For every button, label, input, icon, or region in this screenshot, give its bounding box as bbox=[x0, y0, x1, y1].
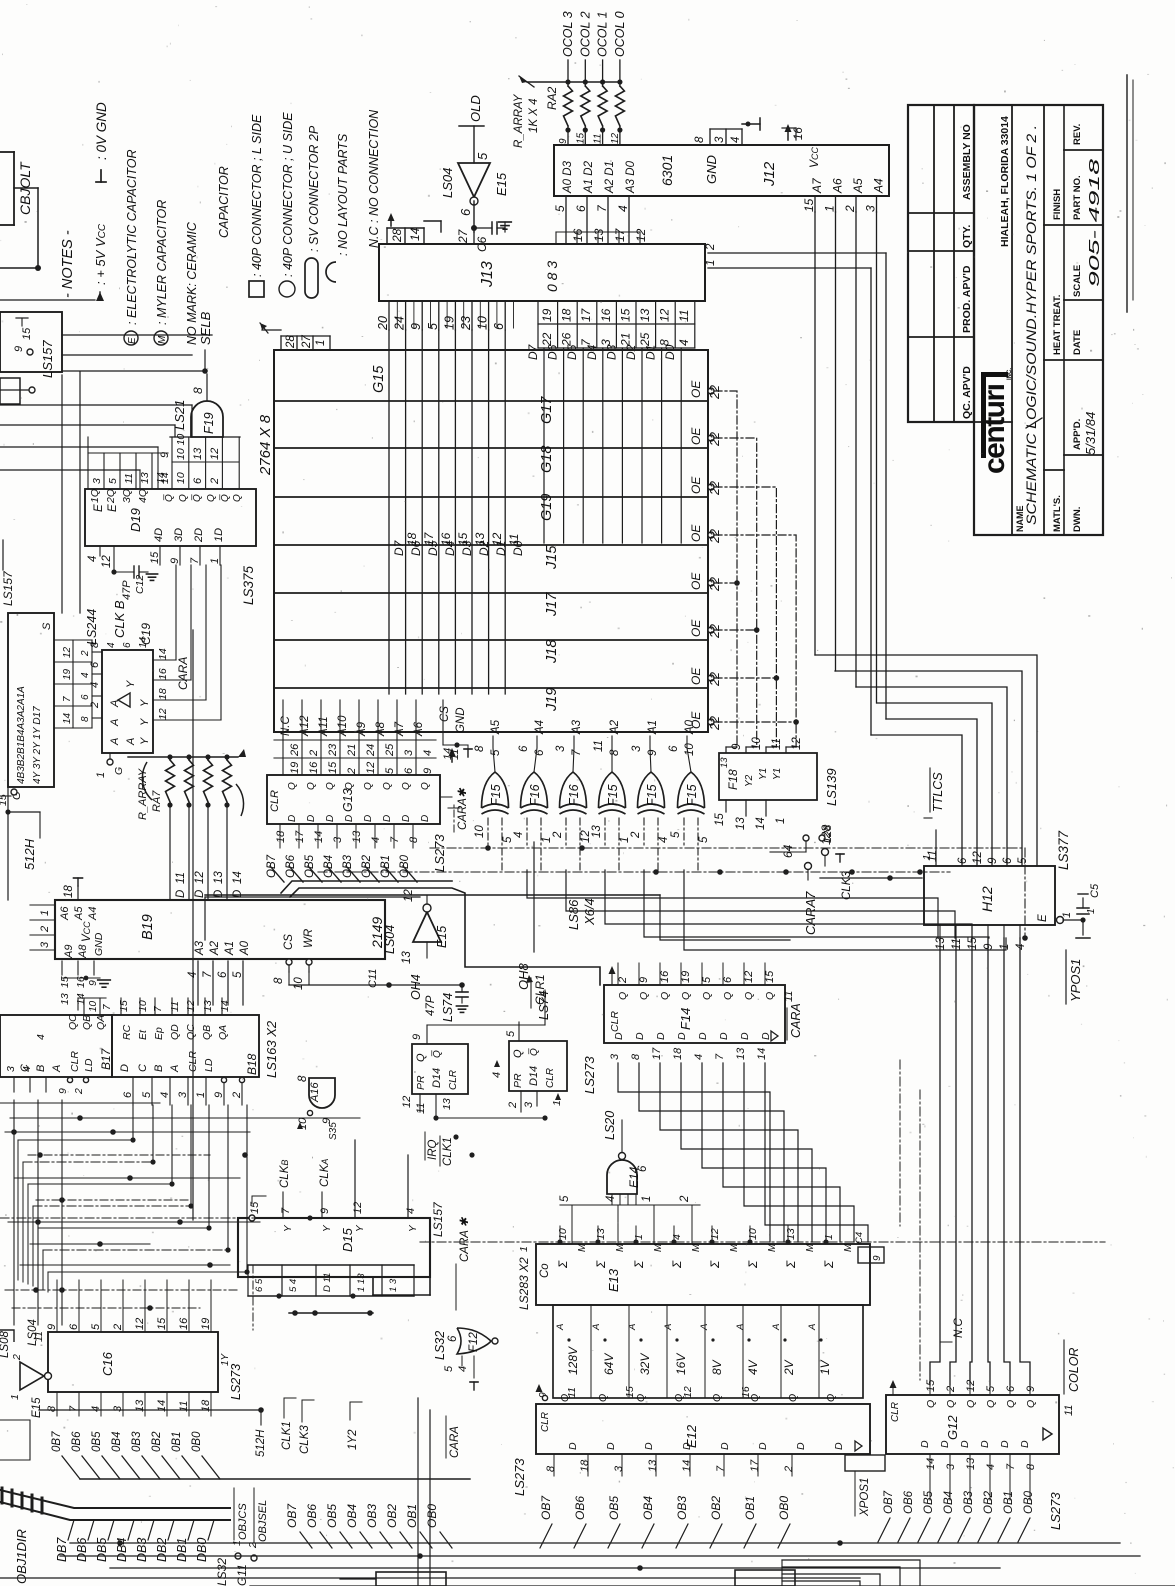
EPROM mid data pins D7-D0 bbox=[392, 531, 525, 556]
svg-text:CBJOLT: CBJOLT bbox=[17, 161, 33, 215]
svg-text:G18: G18 bbox=[539, 446, 555, 473]
svg-text:4: 4 bbox=[457, 1366, 469, 1372]
svg-text:1: 1 bbox=[999, 944, 1011, 950]
svg-text:10: 10 bbox=[557, 1228, 569, 1240]
svg-text:CLK3: CLK3 bbox=[299, 1425, 311, 1454]
svg-text:2: 2 bbox=[630, 831, 642, 839]
svg-text:4: 4 bbox=[658, 837, 670, 843]
svg-text:12: 12 bbox=[634, 228, 648, 242]
svg-text:M: M bbox=[843, 1243, 854, 1252]
svg-text:A: A bbox=[555, 1324, 566, 1331]
svg-text:13: 13 bbox=[595, 1228, 607, 1240]
wire bundle right of EPROM bbox=[705, 212, 886, 735]
svg-text:D: D bbox=[655, 1032, 667, 1040]
dash-dot rail D15 to E13 bbox=[240, 1215, 430, 1242]
svg-text:10: 10 bbox=[175, 472, 187, 484]
svg-text:16: 16 bbox=[308, 761, 320, 774]
svg-text:13: 13 bbox=[719, 757, 730, 768]
svg-text:17: 17 bbox=[579, 307, 593, 322]
net labels OCOL3-0 bbox=[561, 11, 627, 82]
svg-text:1V: 1V bbox=[818, 1359, 832, 1375]
svg-text:OB7: OB7 bbox=[266, 854, 278, 878]
svg-text:2: 2 bbox=[945, 1386, 957, 1393]
svg-text:15: 15 bbox=[764, 970, 776, 983]
svg-text:N.C: N.C bbox=[953, 1318, 965, 1339]
svg-text:M: M bbox=[157, 335, 168, 344]
E12 output labels OB7-OB0 bbox=[539, 1454, 795, 1548]
svg-text:OE: OE bbox=[689, 427, 703, 445]
svg-text:TTLCS: TTLCS bbox=[931, 772, 945, 812]
svg-text:A7: A7 bbox=[810, 177, 824, 194]
svg-text:Σ: Σ bbox=[822, 1260, 836, 1269]
svg-text:2: 2 bbox=[209, 478, 221, 485]
svg-text:A9: A9 bbox=[356, 721, 368, 737]
svg-text:Q̅: Q̅ bbox=[431, 1050, 443, 1058]
svg-text:7: 7 bbox=[62, 696, 73, 702]
svg-text:6: 6 bbox=[1005, 1385, 1017, 1392]
IC H12 LS377 bbox=[922, 850, 1073, 950]
svg-text:A4: A4 bbox=[872, 178, 886, 194]
svg-text:A: A bbox=[109, 738, 121, 746]
svg-text:C4: C4 bbox=[854, 1232, 865, 1244]
svg-text:6: 6 bbox=[80, 694, 91, 700]
svg-text:12: 12 bbox=[157, 708, 169, 720]
label LS163 X2 bbox=[264, 1020, 279, 1078]
svg-text:6: 6 bbox=[447, 1335, 459, 1342]
svg-text:22: 22 bbox=[708, 624, 722, 639]
svg-text:A4: A4 bbox=[87, 907, 99, 921]
svg-text:A: A bbox=[591, 1324, 602, 1331]
svg-text:Σ: Σ bbox=[632, 1260, 646, 1269]
svg-text:OE: OE bbox=[689, 667, 703, 685]
svg-text:15: 15 bbox=[618, 308, 632, 322]
svg-text:23: 23 bbox=[459, 316, 473, 331]
6301 right pins 15 1 2 3 A7 A6 A5 A4 bbox=[802, 177, 886, 213]
svg-text:A2: A2 bbox=[209, 940, 221, 956]
svg-text:LS273: LS273 bbox=[432, 834, 447, 872]
svg-text:LS20: LS20 bbox=[603, 1111, 617, 1140]
svg-text:6: 6 bbox=[574, 205, 588, 212]
note 40P connector L side bbox=[249, 114, 264, 297]
svg-text:Y: Y bbox=[408, 1224, 419, 1232]
label LS375 bbox=[241, 565, 256, 605]
svg-text:VCC: VCC bbox=[81, 921, 93, 942]
svg-text:CARA: CARA bbox=[789, 1003, 803, 1038]
svg-text:XPOS1: XPOS1 bbox=[859, 1478, 871, 1517]
svg-text:8: 8 bbox=[545, 1465, 557, 1472]
svg-text:OCOL 2: OCOL 2 bbox=[578, 11, 592, 57]
svg-text:: ELECTROLYTIC CAPACITOR: : ELECTROLYTIC CAPACITOR bbox=[125, 149, 139, 325]
svg-text:D: D bbox=[676, 1032, 688, 1040]
label LS139 bbox=[824, 768, 839, 806]
wire mesh lower left bbox=[0, 1100, 360, 1325]
svg-text:CLR: CLR bbox=[269, 790, 281, 812]
wires D17 to LS244 bbox=[92, 565, 221, 720]
svg-text:Q: Q bbox=[597, 1394, 609, 1402]
svg-text:CLR: CLR bbox=[540, 1412, 551, 1432]
svg-text:CARA ✱: CARA ✱ bbox=[459, 1216, 471, 1262]
svg-text:12: 12 bbox=[194, 871, 206, 884]
svg-text:13: 13 bbox=[351, 830, 363, 843]
svg-text:LS139: LS139 bbox=[824, 768, 839, 806]
6301 top pins 8 3 4 Vcc 16 bbox=[694, 118, 805, 145]
svg-text:N.C: N.C bbox=[280, 716, 292, 737]
svg-text:DB3: DB3 bbox=[135, 1538, 149, 1562]
svg-text:12: 12 bbox=[185, 1000, 197, 1012]
svg-text:D: D bbox=[1019, 1440, 1031, 1448]
svg-text:13: 13 bbox=[735, 817, 747, 830]
svg-text:4: 4 bbox=[106, 642, 117, 648]
svg-text:128: 128 bbox=[822, 824, 834, 843]
svg-text:RA7: RA7 bbox=[151, 790, 163, 812]
svg-text:22: 22 bbox=[708, 672, 722, 687]
svg-text:D6: D6 bbox=[546, 344, 560, 360]
svg-text:M: M bbox=[729, 1243, 740, 1252]
svg-text:A5: A5 bbox=[490, 719, 502, 735]
svg-text:12: 12 bbox=[743, 971, 755, 983]
svg-text:13: 13 bbox=[935, 937, 947, 950]
svg-text:9: 9 bbox=[647, 749, 659, 756]
svg-text:11: 11 bbox=[593, 740, 605, 752]
svg-text:M: M bbox=[767, 1243, 778, 1252]
svg-text:OB1: OB1 bbox=[405, 1504, 419, 1528]
svg-text:12: 12 bbox=[965, 1380, 977, 1392]
svg-text:1D: 1D bbox=[213, 528, 225, 542]
svg-text:OH4: OH4 bbox=[409, 974, 423, 1000]
svg-text:1: 1 bbox=[823, 205, 837, 212]
svg-text:8: 8 bbox=[408, 836, 420, 843]
svg-text:DB7: DB7 bbox=[55, 1537, 69, 1562]
notes heading bbox=[60, 230, 76, 298]
svg-text:4: 4 bbox=[87, 556, 99, 562]
dash-dot rail above E13 bbox=[420, 1239, 1105, 1244]
svg-text:11: 11 bbox=[123, 473, 135, 484]
svg-text:DWN.: DWN. bbox=[1072, 507, 1083, 532]
svg-text:A4: A4 bbox=[534, 720, 546, 735]
svg-text:1: 1 bbox=[209, 558, 221, 564]
svg-text:3Q: 3Q bbox=[121, 489, 133, 503]
svg-text:64V: 64V bbox=[602, 1353, 616, 1375]
svg-text:A: A bbox=[735, 1324, 746, 1331]
svg-text:OB5: OB5 bbox=[325, 1504, 339, 1528]
svg-text:LS244: LS244 bbox=[85, 609, 99, 645]
svg-text:OBJSEL: OBJSEL bbox=[257, 1500, 269, 1542]
svg-text:B19: B19 bbox=[140, 914, 156, 940]
svg-text:G17: G17 bbox=[539, 396, 555, 424]
svg-text:A: A bbox=[51, 1065, 63, 1073]
svg-text:9: 9 bbox=[558, 138, 569, 144]
svg-text:2: 2 bbox=[617, 977, 629, 984]
svg-text:3: 3 bbox=[714, 136, 726, 143]
svg-text:Q̅: Q̅ bbox=[219, 494, 231, 502]
svg-text:E: E bbox=[107, 504, 119, 512]
svg-text:Q: Q bbox=[825, 1394, 837, 1402]
svg-text:LS377: LS377 bbox=[1056, 830, 1071, 870]
svg-text:3: 3 bbox=[631, 745, 643, 752]
svg-text:905- 4918: 905- 4918 bbox=[1086, 158, 1103, 287]
svg-text:12: 12 bbox=[101, 555, 113, 568]
J13 address pins 20 24 9 5 19 23 10 6 bbox=[376, 301, 514, 331]
svg-text:Q: Q bbox=[344, 782, 355, 790]
svg-text:14: 14 bbox=[408, 227, 422, 241]
svg-text:QB: QB bbox=[201, 1025, 213, 1040]
resistor array RA2 1K X 4 bbox=[513, 76, 624, 148]
svg-text:4: 4 bbox=[422, 750, 434, 756]
svg-text:5: 5 bbox=[490, 749, 502, 756]
svg-text:Σ: Σ bbox=[784, 1260, 798, 1269]
svg-text:21: 21 bbox=[346, 744, 358, 757]
E13 top pins bbox=[557, 1226, 835, 1244]
svg-text:NO MARK: CERAMIC: NO MARK: CERAMIC bbox=[185, 221, 199, 345]
svg-text:7: 7 bbox=[189, 557, 201, 564]
svg-text:16V: 16V bbox=[674, 1353, 688, 1375]
svg-text:B18: B18 bbox=[245, 1053, 259, 1075]
svg-text:Y: Y bbox=[322, 1224, 333, 1232]
svg-text:Q̅: Q̅ bbox=[163, 494, 175, 502]
svg-text:D: D bbox=[919, 1440, 931, 1448]
svg-text:1K X 4: 1K X 4 bbox=[528, 98, 540, 133]
svg-text:12: 12 bbox=[209, 448, 221, 460]
svg-text:OE: OE bbox=[689, 572, 703, 590]
svg-text:E: E bbox=[127, 337, 138, 344]
svg-text:A: A bbox=[771, 1324, 782, 1331]
label LS283 X2 bbox=[0, 0, 1, 1]
label LS377 bbox=[1056, 830, 1071, 870]
net label CLK B bbox=[112, 600, 127, 638]
svg-text:2: 2 bbox=[346, 768, 358, 775]
svg-text:Q: Q bbox=[363, 782, 374, 790]
svg-text:Q̅: Q̅ bbox=[528, 1048, 540, 1056]
IC D15 LS157 bbox=[0, 1196, 430, 1330]
svg-text:MATL'S.: MATL'S. bbox=[1052, 495, 1063, 532]
svg-text:19: 19 bbox=[540, 308, 554, 322]
svg-text:19: 19 bbox=[200, 1318, 212, 1330]
svg-text:OB2: OB2 bbox=[983, 1490, 995, 1514]
svg-text:26: 26 bbox=[289, 743, 301, 757]
svg-text:18: 18 bbox=[672, 1047, 684, 1060]
net label XPOS1 bbox=[845, 1455, 885, 1517]
svg-text:LS157: LS157 bbox=[431, 1201, 445, 1237]
IC D19 LS375 bbox=[85, 437, 256, 546]
svg-text:A16: A16 bbox=[309, 1082, 321, 1103]
svg-text:4: 4 bbox=[605, 1196, 617, 1202]
svg-text:Q: Q bbox=[232, 494, 243, 502]
svg-text:14: 14 bbox=[756, 1048, 768, 1060]
svg-text:Ep: Ep bbox=[153, 1027, 165, 1040]
svg-text:14: 14 bbox=[232, 871, 244, 884]
IC E13 LS283 X2 adder bbox=[518, 1232, 870, 1305]
svg-text:14: 14 bbox=[755, 817, 767, 830]
title block NAME field bbox=[1015, 125, 1042, 532]
svg-text:GND: GND bbox=[704, 155, 719, 184]
svg-text:: + 5V VCC: : + 5V VCC bbox=[93, 223, 108, 285]
E13 value box 128V-1V bbox=[553, 1305, 863, 1398]
svg-text:1: 1 bbox=[823, 1234, 835, 1240]
G13 pin 11 CARA* clock bbox=[440, 748, 469, 832]
svg-text:5: 5 bbox=[426, 323, 440, 330]
svg-text:J12: J12 bbox=[761, 161, 778, 187]
svg-text:6301: 6301 bbox=[659, 155, 675, 186]
AND gate A16 LS05 bbox=[297, 1074, 339, 1140]
svg-text:10: 10 bbox=[751, 737, 763, 750]
label LS157 left edge bbox=[1, 540, 15, 606]
F19 input pin cells bbox=[159, 434, 240, 488]
svg-text:B: B bbox=[153, 1065, 165, 1072]
svg-text:16: 16 bbox=[178, 1317, 190, 1330]
svg-text:J15: J15 bbox=[544, 545, 560, 570]
svg-text:OB2: OB2 bbox=[709, 1496, 723, 1520]
svg-text:19: 19 bbox=[289, 762, 301, 774]
svg-text:15: 15 bbox=[802, 198, 816, 212]
svg-text:C19: C19 bbox=[139, 623, 153, 645]
svg-text:D: D bbox=[382, 815, 393, 822]
svg-text:CLR: CLR bbox=[448, 1070, 459, 1090]
svg-text:12: 12 bbox=[972, 851, 984, 864]
J13 pin 27 bbox=[456, 228, 474, 244]
svg-text:OB6: OB6 bbox=[305, 1504, 319, 1528]
note electrolytic capacitor bbox=[124, 149, 139, 345]
svg-text:D: D bbox=[287, 815, 298, 822]
svg-text:64: 64 bbox=[781, 844, 795, 858]
svg-text:Q: Q bbox=[749, 1394, 761, 1402]
svg-text:M: M bbox=[577, 1243, 588, 1252]
svg-text:FINISH: FINISH bbox=[1052, 189, 1063, 220]
H12 to G12 vertical bus bbox=[930, 938, 1030, 1385]
svg-text:D: D bbox=[760, 1032, 772, 1040]
svg-text:OB4: OB4 bbox=[345, 1504, 359, 1528]
net label OH4 bbox=[409, 974, 423, 1000]
svg-text:F19: F19 bbox=[202, 412, 216, 434]
svg-text:D1: D1 bbox=[644, 345, 658, 360]
svg-text:6 5: 6 5 bbox=[254, 1278, 265, 1292]
svg-text:3: 3 bbox=[39, 941, 51, 948]
inverter E15 LS04 bbox=[440, 126, 509, 232]
svg-text:Y: Y bbox=[139, 699, 151, 707]
svg-text:A1: A1 bbox=[224, 941, 236, 956]
svg-text:QD: QD bbox=[169, 1024, 181, 1040]
svg-text:M: M bbox=[805, 1243, 816, 1252]
svg-text:Q: Q bbox=[965, 1400, 977, 1408]
svg-text:D: D bbox=[718, 1032, 730, 1040]
svg-text:D6: D6 bbox=[409, 540, 423, 556]
svg-text:9: 9 bbox=[872, 1255, 883, 1261]
svg-text:4: 4 bbox=[89, 682, 101, 688]
svg-text:9: 9 bbox=[319, 1208, 331, 1214]
svg-text:Q: Q bbox=[420, 782, 431, 790]
svg-text:OB4: OB4 bbox=[641, 1496, 655, 1520]
svg-text:5: 5 bbox=[443, 1365, 455, 1372]
E14 input pin row 5 4 1 2 bbox=[559, 1195, 700, 1244]
svg-text:- NOTES -: - NOTES - bbox=[60, 230, 76, 298]
svg-text:22: 22 bbox=[708, 716, 722, 731]
svg-text:J18: J18 bbox=[544, 640, 560, 664]
svg-text:Q: Q bbox=[382, 782, 393, 790]
IC B19 2149 RAM bbox=[30, 878, 385, 988]
svg-text:Y: Y bbox=[283, 1224, 294, 1232]
svg-text:SCALE: SCALE bbox=[1072, 265, 1083, 297]
svg-text:2: 2 bbox=[112, 1324, 124, 1331]
IC C16 LS273 bbox=[46, 1280, 218, 1416]
svg-text:CLKA: CLKA bbox=[319, 1159, 331, 1187]
svg-text:4: 4 bbox=[671, 1234, 683, 1240]
svg-text:17: 17 bbox=[749, 1459, 761, 1472]
svg-text:B17: B17 bbox=[99, 1047, 113, 1070]
svg-text:6: 6 bbox=[122, 642, 133, 648]
XOR gates LS86 F15 F16 F16 F15 F15 F15 bbox=[474, 772, 710, 870]
svg-text:2: 2 bbox=[73, 1088, 85, 1095]
svg-text:D4: D4 bbox=[585, 344, 599, 360]
svg-text:8: 8 bbox=[630, 1053, 642, 1060]
svg-text:Q: Q bbox=[945, 1400, 957, 1408]
J13 pins 28 14 top bbox=[387, 213, 441, 244]
svg-text:4: 4 bbox=[21, 1066, 33, 1072]
IC C19 LS244 buffer bbox=[85, 609, 169, 778]
svg-text:OBJCS: OBJCS bbox=[237, 1503, 249, 1540]
svg-text:7: 7 bbox=[714, 1053, 726, 1060]
wire staircase XOR inputs to H12 bbox=[527, 870, 1006, 950]
svg-text:4: 4 bbox=[370, 837, 382, 843]
svg-text:D: D bbox=[605, 1442, 617, 1450]
D17 right pin cells bbox=[54, 640, 92, 728]
IC F18 LS139 bbox=[714, 737, 817, 830]
svg-text:F15: F15 bbox=[645, 784, 659, 806]
svg-text:D: D bbox=[939, 1440, 951, 1448]
svg-text:4: 4 bbox=[405, 1208, 417, 1214]
svg-text:Q: Q bbox=[178, 494, 189, 502]
net label CLR1 overlined bbox=[526, 974, 547, 1008]
svg-text:A: A bbox=[807, 1324, 818, 1331]
svg-text:CLR: CLR bbox=[609, 1011, 621, 1032]
svg-text:A2 D1: A2 D1 bbox=[604, 161, 616, 194]
svg-text:LS273: LS273 bbox=[229, 1364, 243, 1400]
svg-text:D: D bbox=[757, 1442, 769, 1450]
net label N.C at G12 bbox=[940, 1318, 965, 1343]
svg-text:HIALEAH, FLORIDA 33014: HIALEAH, FLORIDA 33014 bbox=[999, 116, 1011, 247]
svg-text:A: A bbox=[125, 738, 137, 746]
left edge wires bottom bbox=[0, 1420, 70, 1543]
C16 output labels OB7-OB0 with bus taps bbox=[51, 1431, 470, 1479]
svg-text:D4: D4 bbox=[443, 540, 457, 556]
svg-text:2: 2 bbox=[231, 1092, 243, 1099]
svg-text:0B3: 0B3 bbox=[131, 1431, 143, 1452]
svg-text:9: 9 bbox=[987, 857, 999, 864]
svg-text:13: 13 bbox=[647, 1459, 659, 1472]
svg-text:2: 2 bbox=[552, 831, 564, 839]
svg-text:17: 17 bbox=[613, 227, 627, 242]
svg-text:4: 4 bbox=[491, 1072, 503, 1078]
label LS273 C16 bbox=[220, 1352, 243, 1400]
svg-text:5/31/84: 5/31/84 bbox=[1083, 412, 1098, 455]
6301 left pins A0-A3 / D3-D0 bbox=[553, 160, 648, 244]
svg-text:16: 16 bbox=[157, 668, 169, 680]
capacitor cell C4 right of E13 bbox=[854, 1232, 884, 1263]
svg-text:E15: E15 bbox=[435, 926, 449, 948]
svg-text:HEAT TREAT.: HEAT TREAT. bbox=[1052, 295, 1063, 355]
svg-text:CLR: CLR bbox=[69, 1051, 81, 1072]
svg-text:1: 1 bbox=[95, 772, 107, 778]
B17 B18 Et Ep pins 10 7 bbox=[78, 998, 113, 1015]
svg-text:15: 15 bbox=[925, 1379, 937, 1392]
svg-text:7: 7 bbox=[202, 971, 214, 978]
svg-text:D0: D0 bbox=[511, 540, 525, 556]
svg-text:5: 5 bbox=[475, 152, 490, 160]
svg-text:19: 19 bbox=[62, 668, 73, 680]
svg-text:D: D bbox=[795, 1442, 807, 1450]
svg-text:D: D bbox=[719, 1442, 731, 1450]
EPROM chip labels G15 G17 G18 G19 J15 J17 J18 J19 bbox=[371, 365, 560, 712]
svg-text:10: 10 bbox=[88, 1000, 99, 1012]
D19 E pins 4 12 with C12 bbox=[87, 546, 158, 600]
